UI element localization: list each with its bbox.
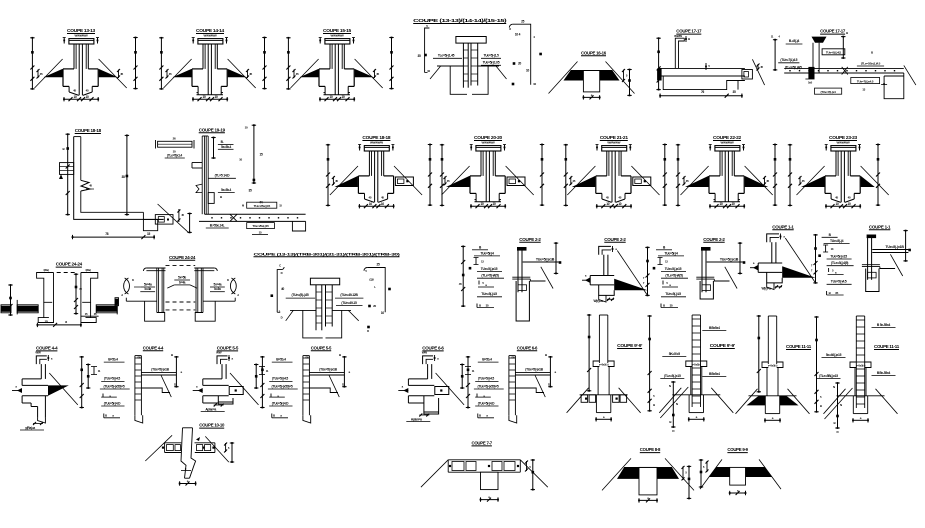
svg-text:5x=5b: 5x=5b bbox=[178, 276, 186, 280]
section detail COUPE 1-1 bbox=[750, 224, 818, 290]
svg-text:(TUe=7(L)x4: (TUe=7(L)x4 bbox=[820, 90, 836, 94]
svg-text:15: 15 bbox=[147, 232, 151, 236]
svg-text:TUe=5(-)x1B: TUe=5(-)x1B bbox=[536, 257, 555, 261]
svg-text:COUPE (13-13)/(TRB-301)/(31-31: COUPE (13-13)/(TRB-301)/(31-31)/(TRB-301… bbox=[254, 251, 402, 256]
section detail COUPE 16-16 bbox=[549, 50, 635, 99]
svg-text:TUe=5(-)4.5: TUe=5(-)4.5 bbox=[665, 292, 681, 296]
svg-text:TLe=5(-)1.45: TLe=5(-)1.45 bbox=[438, 54, 455, 58]
svg-text:TUe=5(-)x15: TUe=5(-)x15 bbox=[830, 255, 847, 259]
svg-text:10: 10 bbox=[73, 95, 77, 99]
svg-text:(TUe=5(-)x50)=5: (TUe=5(-)x50)=5 bbox=[478, 384, 499, 388]
svg-text:10: 10 bbox=[847, 202, 851, 206]
svg-text:COUPE 16-16: COUPE 16-16 bbox=[581, 50, 607, 55]
svg-text:40: 40 bbox=[281, 287, 285, 291]
svg-text:COUPE 9'-9': COUPE 9'-9' bbox=[710, 343, 735, 348]
svg-text:Aplan=a: Aplan=a bbox=[411, 418, 422, 422]
svg-text:10: 10 bbox=[381, 311, 385, 315]
section detail COUPE 11-11 bbox=[736, 315, 823, 422]
svg-text:COUPE 20-20: COUPE 20-20 bbox=[474, 135, 503, 140]
svg-text:TUe=5(-)4.5: TUe=5(-)4.5 bbox=[831, 280, 847, 284]
section detail COUPE 8-8 bbox=[602, 447, 694, 502]
svg-text:COUPE 14-14: COUPE 14-14 bbox=[196, 28, 225, 33]
svg-text:10: 10 bbox=[606, 202, 610, 206]
svg-text:10: 10 bbox=[85, 95, 89, 99]
svg-text:B: B bbox=[820, 404, 822, 408]
svg-text:b=4a: b=4a bbox=[214, 287, 221, 291]
svg-text:35: 35 bbox=[732, 90, 736, 94]
svg-text:COUPE 9'-9': COUPE 9'-9' bbox=[617, 343, 642, 348]
svg-text:(TUe=5(-)4.5: (TUe=5(-)4.5 bbox=[272, 377, 288, 381]
section detail COUPE 21-21 bbox=[564, 135, 667, 208]
section detail COUPE 11-11 bbox=[817, 316, 900, 434]
svg-text:e=5x5(+): e=5x5(+) bbox=[768, 364, 778, 368]
svg-text:10: 10 bbox=[202, 95, 206, 99]
svg-text:TUe=5(-)4: TUe=5(-)4 bbox=[664, 251, 678, 255]
section detail COUPE 2-2 bbox=[582, 237, 650, 303]
svg-text:COUPE 9-9: COUPE 9-9 bbox=[727, 447, 748, 452]
svg-text:TUe=25x(-)15: TUe=25x(-)15 bbox=[252, 224, 269, 228]
svg-text:(TUe=5(-)x50)=5: (TUe=5(-)x50)=5 bbox=[272, 384, 293, 388]
svg-text:D: D bbox=[367, 329, 369, 333]
svg-text:25: 25 bbox=[521, 20, 525, 24]
svg-text:78: 78 bbox=[105, 232, 109, 236]
section detail COUPE 9'-9' bbox=[659, 315, 735, 433]
svg-text:(TLe=5(-)x15: (TLe=5(-)x15 bbox=[664, 374, 681, 378]
svg-text:COUPE 17-17: COUPE 17-17 bbox=[820, 29, 846, 34]
svg-text:TUe=5(-)4.5: TUe=5(-)4.5 bbox=[481, 292, 497, 296]
svg-text:B.=5Se.14L: B.=5Se.14L bbox=[210, 224, 225, 228]
svg-text:D: D bbox=[281, 271, 283, 275]
svg-text:M: M bbox=[242, 204, 244, 208]
section detail COUPE 4-4 bbox=[86, 345, 183, 423]
svg-text:COUPE 18-18: COUPE 18-18 bbox=[75, 128, 102, 133]
svg-text:10 4: 10 4 bbox=[515, 33, 521, 37]
svg-text:b=4a: b=4a bbox=[179, 281, 186, 285]
svg-text:(TLe=5B(-)x15: (TLe=5B(-)x15 bbox=[819, 374, 838, 378]
svg-text:N: N bbox=[669, 384, 671, 388]
svg-text:B: B bbox=[653, 403, 655, 407]
section detail COUPE 13-13 bbox=[30, 28, 138, 101]
svg-text:COUPE 19-19: COUPE 19-19 bbox=[199, 127, 226, 132]
svg-text:15: 15 bbox=[44, 320, 48, 324]
svg-text:5x=46(-)x15: 5x=46(-)x15 bbox=[826, 353, 842, 357]
svg-text:COUPE 2-2: COUPE 2-2 bbox=[604, 237, 626, 242]
svg-text:COUPE 11-11: COUPE 11-11 bbox=[874, 344, 900, 349]
section detail COUPE 18-18 bbox=[326, 135, 432, 208]
svg-text:WWWWW: WWWWW bbox=[482, 141, 495, 145]
section detail COUPE 19-19 (wall with deck) bbox=[156, 124, 306, 234]
svg-text:COUPE 15-15: COUPE 15-15 bbox=[323, 28, 352, 33]
section detail COUPE 9'-9' bbox=[567, 314, 656, 421]
svg-text:B.=5(-)4: B.=5(-)4 bbox=[789, 39, 800, 43]
svg-text:COUPE 5-5: COUPE 5-5 bbox=[311, 345, 332, 350]
svg-text:WWWWW: WWWWW bbox=[721, 141, 734, 145]
svg-text:WW: WW bbox=[422, 351, 428, 355]
svg-text:TUe=5(-)4: TUe=5(-)4 bbox=[480, 251, 494, 255]
section detail COUPE 17-17 (left) bbox=[656, 29, 764, 98]
svg-text:(TLe=5Se.(L)4.5: (TLe=5Se.(L)4.5 bbox=[861, 62, 881, 66]
svg-text:TUe=7(L)x4.5: TUe=7(L)x4.5 bbox=[857, 79, 874, 83]
svg-text:15: 15 bbox=[259, 153, 263, 157]
svg-text:5x=4a: 5x=4a bbox=[214, 283, 222, 287]
svg-text:(TUe=5(-)4.D: (TUe=5(-)4.D bbox=[478, 401, 495, 405]
section detail COUPE 7-7 bbox=[421, 441, 548, 502]
svg-text:5x5: 5x5 bbox=[808, 81, 813, 85]
svg-text:TUe=5(-)x1B: TUe=5(-)x1B bbox=[885, 245, 904, 249]
svg-text:B 5x-55x4: B 5x-55x4 bbox=[877, 323, 891, 327]
section detail COUPE 15-15 bbox=[286, 28, 394, 101]
svg-text:e=5x5(+): e=5x5(+) bbox=[856, 364, 866, 368]
svg-text:10: 10 bbox=[835, 202, 839, 206]
svg-text:(TUe=7(L)4.5: (TUe=7(L)4.5 bbox=[780, 58, 797, 62]
svg-text:5x=5b.4: 5x=5b.4 bbox=[221, 145, 232, 149]
svg-text:(TUe=5(-)4.5: (TUe=5(-)4.5 bbox=[104, 377, 120, 381]
svg-text:(1)5: (1)5 bbox=[369, 278, 374, 282]
svg-text:10: 10 bbox=[719, 202, 723, 206]
svg-text:N: N bbox=[676, 402, 678, 406]
svg-text:35: 35 bbox=[248, 189, 252, 193]
svg-text:B/5x5x4: B/5x5x4 bbox=[709, 326, 720, 330]
svg-text:(TUe=49-12B: (TUe=49-12B bbox=[340, 293, 358, 297]
svg-text:COUPE 10-10: COUPE 10-10 bbox=[199, 423, 225, 428]
section detail COUPE 17-17 (right) bbox=[771, 29, 916, 99]
svg-text:COUPE 22-22: COUPE 22-22 bbox=[713, 135, 742, 140]
svg-text:B: B bbox=[846, 31, 848, 35]
svg-text:B=5b.4: B=5b.4 bbox=[482, 358, 492, 362]
svg-text:COUPE 1-1: COUPE 1-1 bbox=[772, 224, 794, 229]
svg-text:COUPE 23-23: COUPE 23-23 bbox=[829, 135, 858, 140]
svg-text:WW: WW bbox=[216, 351, 222, 355]
svg-text:TUe=25x(-)15: TUe=25x(-)15 bbox=[254, 204, 271, 208]
svg-text:W(e)=a: W(e)=a bbox=[761, 286, 771, 290]
svg-text:10: 10 bbox=[214, 95, 218, 99]
svg-text:TUe=5(-)x1B: TUe=5(-)x1B bbox=[720, 257, 739, 261]
section detail COUPE 20-20 bbox=[440, 135, 544, 208]
svg-text:(TLe=5)x1.4: (TLe=5)x1.4 bbox=[167, 154, 182, 158]
section detail COUPE 2-2 bbox=[459, 237, 562, 321]
section detail COUPE 24-24 (pair of channels) bbox=[1, 262, 117, 327]
svg-text:25: 25 bbox=[376, 263, 380, 267]
svg-text:N: N bbox=[833, 385, 835, 389]
svg-text:10: 10 bbox=[381, 202, 385, 206]
svg-text:B=5b.4: B=5b.4 bbox=[276, 358, 286, 362]
section detail COUPE 22-22 bbox=[676, 135, 777, 208]
svg-text:e=5x5(+): e=5x5(+) bbox=[692, 363, 702, 367]
svg-text:WWWWW: WWWWW bbox=[75, 34, 88, 38]
svg-text:(TUe=5(-)x1B: (TUe=5(-)x1B bbox=[319, 367, 337, 371]
svg-text:COUPE 24-24: COUPE 24-24 bbox=[169, 255, 196, 260]
svg-text:(TUe=5(-)x50)=5: (TUe=5(-)x50)=5 bbox=[104, 384, 125, 388]
section detail COUPE 9-9 bbox=[699, 447, 781, 495]
svg-text:TUe=5(-)4: TUe=5(-)4 bbox=[830, 239, 844, 243]
svg-text:10: 10 bbox=[618, 202, 622, 206]
svg-text:TUe=5(L)4(1: TUe=5(L)4(1 bbox=[826, 51, 842, 55]
section detail COUPE 6-6 bbox=[398, 346, 470, 422]
svg-text:C: C bbox=[279, 264, 281, 268]
section detail COUPE 14-14 bbox=[159, 28, 267, 101]
svg-text:TUe=5(-)x15: TUe=5(-)x15 bbox=[665, 267, 682, 271]
svg-text:B/5x-55x4: B/5x-55x4 bbox=[877, 371, 891, 375]
svg-text:B/5x5x4: B/5x5x4 bbox=[709, 372, 720, 376]
svg-text:COUPE 17-17: COUPE 17-17 bbox=[676, 29, 702, 34]
svg-text:COUPE 7-7: COUPE 7-7 bbox=[471, 441, 492, 446]
svg-text:Aplan=a: Aplan=a bbox=[205, 408, 216, 412]
section detail COUPE 6-6 bbox=[460, 345, 557, 423]
section detail COUPE 5-5 bbox=[254, 345, 351, 423]
svg-text:COUPE 11-11: COUPE 11-11 bbox=[786, 344, 812, 349]
svg-text:(TUe=5(-)x1B: (TUe=5(-)x1B bbox=[151, 367, 169, 371]
svg-text:10: 10 bbox=[492, 202, 496, 206]
svg-text:WWWWW: WWWWW bbox=[204, 34, 217, 38]
svg-text:(TUe=(5)-(-65: (TUe=(5)-(-65 bbox=[292, 293, 309, 297]
svg-text:(TUe=5(-)4.D: (TUe=5(-)4.D bbox=[104, 401, 121, 405]
svg-text:t(Ra): t(Ra) bbox=[43, 268, 48, 272]
svg-text:(TUe=5(-)4.5: (TUe=5(-)4.5 bbox=[478, 377, 494, 381]
svg-text:e=5x5(+): e=5x5(+) bbox=[599, 363, 609, 367]
svg-text:N: N bbox=[840, 403, 842, 407]
svg-text:76: 76 bbox=[701, 90, 705, 94]
svg-text:B=5b.4: B=5b.4 bbox=[108, 358, 118, 362]
svg-text:COUPE 21-21: COUPE 21-21 bbox=[600, 135, 629, 140]
svg-text:(TLe=5(L)4(5: (TLe=5(L)4(5 bbox=[785, 66, 802, 70]
svg-text:COUPE 2-2: COUPE 2-2 bbox=[519, 237, 541, 242]
svg-text:WWWWW: WWWWW bbox=[837, 141, 850, 145]
svg-text:COUPE 2-2: COUPE 2-2 bbox=[703, 237, 725, 242]
svg-text:COUPE 8-8: COUPE 8-8 bbox=[640, 447, 661, 452]
svg-text:10: 10 bbox=[369, 202, 373, 206]
svg-text:COUPE 24-24: COUPE 24-24 bbox=[56, 262, 83, 267]
svg-text:B: B bbox=[688, 37, 690, 41]
svg-text:COUPE 13-13: COUPE 13-13 bbox=[67, 28, 96, 33]
svg-text:10: 10 bbox=[341, 95, 345, 99]
svg-text:(TLe=5(-)4(5): (TLe=5(-)4(5) bbox=[665, 274, 682, 278]
svg-text:COUPE 18-18: COUPE 18-18 bbox=[362, 135, 391, 140]
svg-text:COUPE (13-13)/(14-14)/(15-15): COUPE (13-13)/(14-14)/(15-15) bbox=[413, 18, 508, 23]
svg-text:COUPE 1-1: COUPE 1-1 bbox=[869, 224, 891, 229]
svg-text:TUe=5(-)1.05: TUe=5(-)1.05 bbox=[483, 61, 500, 65]
section detail COUPE 5-5 bbox=[193, 346, 265, 412]
section detail COUPE 18-18 (wall) bbox=[59, 128, 192, 239]
svg-text:COUPE 6-6: COUPE 6-6 bbox=[517, 345, 538, 350]
svg-text:(TL=5 14.D: (TL=5 14.D bbox=[215, 174, 231, 178]
svg-text:5x=4a: 5x=4a bbox=[144, 283, 152, 287]
svg-text:35: 35 bbox=[417, 54, 421, 58]
svg-text:5K=5 b5: 5K=5 b5 bbox=[669, 352, 680, 356]
svg-text:WWWWW: WWWWW bbox=[370, 141, 383, 145]
svg-text:10: 10 bbox=[329, 95, 333, 99]
svg-text:(TUe=5(-)4.D: (TUe=5(-)4.D bbox=[272, 401, 289, 405]
svg-text:TUe=5(-)x15: TUe=5(-)x15 bbox=[481, 267, 498, 271]
section detail COUPE (13-13)/(14-14)/(15-15) bbox=[413, 18, 542, 94]
svg-text:y(Ra)=a: y(Ra)=a bbox=[25, 426, 35, 430]
svg-text:B.: B. bbox=[221, 140, 224, 144]
svg-text:20: 20 bbox=[518, 62, 522, 66]
svg-text:WW: WW bbox=[35, 351, 41, 355]
svg-text:WWW: WWW bbox=[674, 34, 682, 38]
section detail COUPE 2-2 bbox=[653, 237, 746, 308]
svg-text:38: 38 bbox=[121, 175, 125, 179]
section detail COUPE 23-23 bbox=[788, 135, 889, 208]
svg-text:WWWWW: WWWWW bbox=[331, 34, 344, 38]
section detail COUPE 4-4 bbox=[12, 346, 84, 431]
svg-text:TUe=5(-)1.5: TUe=5(-)1.5 bbox=[483, 54, 499, 58]
section detail COUPE 10-10 bbox=[145, 423, 234, 486]
svg-text:(TLe=5(-)4(5): (TLe=5(-)4(5) bbox=[831, 261, 848, 265]
svg-text:W(e)=a: W(e)=a bbox=[593, 299, 603, 303]
svg-text:t(Ra): t(Ra) bbox=[85, 268, 90, 272]
svg-text:5x=5b.4: 5x=5b.4 bbox=[221, 188, 232, 192]
section detail COUPE 1-1 bbox=[818, 224, 911, 295]
svg-text:10: 10 bbox=[731, 202, 735, 206]
svg-text:(TUe=5(-)x1B: (TUe=5(-)x1B bbox=[525, 367, 543, 371]
svg-text:(TUe=49-15: (TUe=49-15 bbox=[341, 301, 357, 305]
svg-text:WWWWW: WWWWW bbox=[607, 141, 620, 145]
svg-text:COUPE 4-4: COUPE 4-4 bbox=[143, 345, 164, 350]
svg-text:D: D bbox=[281, 316, 283, 320]
svg-text:10: 10 bbox=[526, 69, 530, 73]
svg-text:(TLe=5(-)4(5): (TLe=5(-)4(5) bbox=[481, 274, 498, 278]
svg-text:10: 10 bbox=[480, 202, 484, 206]
section detail COUPE 24-24 (twin posts) bbox=[115, 255, 239, 321]
svg-text:b=4a: b=4a bbox=[145, 287, 152, 291]
section detail COUPE (13-13)/(TRB-301)/(31-31)/(TRB-301)/(TRB-30) bbox=[254, 251, 402, 338]
